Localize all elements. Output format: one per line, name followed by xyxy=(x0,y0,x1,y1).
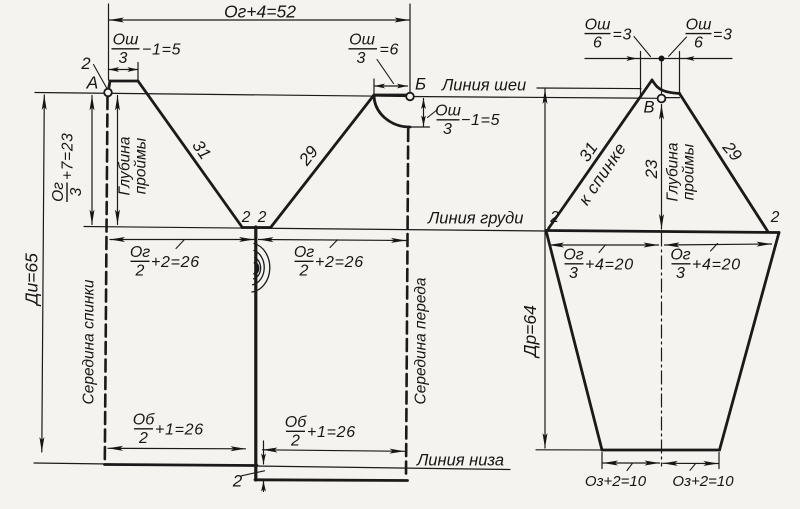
dim Ог/3+4 left xyxy=(549,244,659,246)
svg-text:Ог: Ог xyxy=(670,247,690,264)
label Ош/3-1=5 right xyxy=(435,103,500,139)
label Ош/6=3 left xyxy=(585,17,633,52)
svg-text:Глубина: Глубина xyxy=(665,142,682,201)
svg-text:Ог: Ог xyxy=(130,244,150,261)
tick x138 xyxy=(137,63,139,81)
svg-text:+7=23: +7=23 xyxy=(60,133,77,180)
dim 23 xyxy=(661,105,663,230)
sleeve center dash-dot xyxy=(661,233,663,466)
dim Ош/6 left arrow xyxy=(585,58,637,60)
chest vertex xyxy=(242,226,271,229)
svg-text:Глубина: Глубина xyxy=(117,136,134,195)
neck center dot xyxy=(659,56,665,62)
dim Ди=65 xyxy=(42,95,45,452)
svg-text:Ог+4=52: Ог+4=52 xyxy=(224,2,296,22)
svg-text:3: 3 xyxy=(68,187,85,196)
svg-text:+1=26: +1=26 xyxy=(155,422,204,439)
label 31 body xyxy=(188,137,214,163)
svg-text:+4=20: +4=20 xyxy=(692,257,741,274)
label Об/2+1=26 right xyxy=(285,414,356,450)
label Ог/2+2=26 left xyxy=(130,244,200,280)
top extension right xyxy=(409,4,411,92)
neck drop tick xyxy=(410,126,430,128)
sleeve hem xyxy=(602,449,720,452)
svg-text:Линия груди: Линия груди xyxy=(427,210,523,228)
leader Ог/2 left xyxy=(176,240,185,249)
leader Оз left xyxy=(627,463,633,470)
POINT CIRCLES xyxy=(104,89,665,103)
sleeve raglan right 29 xyxy=(680,94,768,232)
dim Об/2+1=26 left xyxy=(108,447,246,450)
center front dashed xyxy=(406,129,408,478)
label Середина переда xyxy=(413,277,430,404)
leader 2 at A xyxy=(94,65,108,90)
dim Ош/3-1=5 vertical xyxy=(423,99,425,127)
front hem xyxy=(255,478,408,482)
point B xyxy=(658,95,666,103)
svg-text:3: 3 xyxy=(357,50,366,67)
svg-text:+4=20: +4=20 xyxy=(585,257,634,274)
raglan 29 body xyxy=(271,95,374,227)
svg-text:3: 3 xyxy=(676,265,685,282)
front neck curve xyxy=(374,95,410,127)
label 23 xyxy=(642,159,661,179)
THIN CONSTRUCTION LINES xyxy=(34,4,720,470)
label Ог/3+4=20 right xyxy=(670,247,741,283)
leader Ог/3+4 left xyxy=(599,245,606,253)
svg-text:23: 23 xyxy=(642,159,661,179)
label Ог/3+4=20 left xyxy=(563,247,634,283)
svg-text:Ош: Ош xyxy=(585,17,611,34)
svg-text:Ош: Ош xyxy=(435,103,461,120)
oz tick left xyxy=(601,453,603,469)
sleeve right seam xyxy=(720,233,780,451)
dim Ог/3+4 right xyxy=(665,244,772,245)
oz tick right xyxy=(718,453,720,469)
svg-text:Ош: Ош xyxy=(349,32,375,49)
leader Ош/3=6 xyxy=(377,60,394,84)
svg-text:2: 2 xyxy=(135,263,145,280)
svg-text:Середина спинки: Середина спинки xyxy=(81,279,98,404)
tick x374 xyxy=(373,79,375,94)
dim Оз right xyxy=(663,462,719,464)
dim Ош/3=6 xyxy=(375,85,408,87)
svg-text:А: А xyxy=(86,73,99,93)
label Об/2+1=26 left xyxy=(133,412,204,448)
svg-text:6: 6 xyxy=(694,35,703,52)
svg-text:Об: Об xyxy=(285,414,307,431)
leader Оз right xyxy=(690,464,696,471)
dim Ог/2+2=26 right xyxy=(259,240,407,241)
raglan 31 body xyxy=(138,81,242,227)
top extension left xyxy=(108,4,110,80)
svg-text:2: 2 xyxy=(549,209,559,226)
leader Ош/3-1 right xyxy=(428,110,438,118)
dim step 2 upper xyxy=(263,441,265,464)
svg-text:проймы: проймы xyxy=(681,143,698,200)
svg-text:3: 3 xyxy=(119,50,128,67)
label 29 body xyxy=(295,142,323,170)
svg-text:Ош: Ош xyxy=(686,17,712,34)
label Ош/3-1=5 top left xyxy=(112,32,182,68)
bottom line xyxy=(34,463,510,470)
leader Ог/3+4 right xyxy=(711,244,718,252)
svg-text:31: 31 xyxy=(575,139,601,165)
dim Об/2+1=26 right xyxy=(263,450,405,452)
svg-text:Ог: Ог xyxy=(50,182,67,202)
svg-text:2: 2 xyxy=(299,263,309,280)
label Глубина проймы sleeve xyxy=(665,142,698,201)
upper neck line at sleeve xyxy=(537,87,641,90)
svg-text:2: 2 xyxy=(138,430,148,447)
dim Ош/6 middle xyxy=(637,58,684,60)
THICK PATTERN OUTLINE: SLEEVE xyxy=(546,80,779,450)
back hem xyxy=(105,465,258,466)
sleeve left seam xyxy=(546,231,602,451)
svg-text:−1=5: −1=5 xyxy=(461,112,500,129)
leader Ог/2 right xyxy=(330,240,338,248)
svg-text:3: 3 xyxy=(569,265,578,282)
dim step 2 lower xyxy=(263,481,265,492)
dim Оз left xyxy=(603,462,660,464)
label Ош/3=6 xyxy=(349,32,400,68)
svg-text:2: 2 xyxy=(257,209,267,226)
svg-text:+1=26: +1=26 xyxy=(307,424,356,441)
dim Ог/3+7=23 xyxy=(91,96,93,225)
leader 2 step xyxy=(242,471,265,476)
label Ди=65 xyxy=(22,253,42,307)
svg-text:2: 2 xyxy=(80,55,90,73)
sleeve center solid top xyxy=(661,62,663,95)
svg-text:Об: Об xyxy=(133,412,155,429)
label Ог/3+7=23 xyxy=(50,133,85,202)
svg-text:+2=26: +2=26 xyxy=(315,254,364,271)
sleeve ext right xyxy=(679,52,681,94)
side seam xyxy=(254,227,257,480)
dim Др=64 xyxy=(544,89,546,448)
svg-text:Линия низа: Линия низа xyxy=(416,452,504,470)
THICK PATTERN OUTLINE: BODY xyxy=(105,81,411,481)
leader Ош/6 left xyxy=(634,37,651,57)
label к спинке xyxy=(575,139,630,208)
sleeve ext left xyxy=(640,52,642,98)
LEADER LINES xyxy=(94,37,718,476)
label Середина спинки xyxy=(81,279,98,404)
dim Ош/6 right arrow xyxy=(684,58,732,60)
svg-text:Ди=65: Ди=65 xyxy=(22,253,42,307)
svg-text:Б: Б xyxy=(415,75,426,94)
chest line xyxy=(84,227,546,232)
label Ог/2+2=26 right xyxy=(294,244,364,280)
sleeve chest line xyxy=(546,231,779,233)
center back dashed xyxy=(105,97,108,463)
line from Б to B xyxy=(410,97,658,99)
label Глубина проймы body xyxy=(117,136,150,195)
point Б xyxy=(406,93,414,101)
sleeve top curve xyxy=(652,80,680,94)
label Ош/6=3 right xyxy=(686,17,733,52)
sleeve raglan left 31 xyxy=(549,80,653,229)
svg-text:2: 2 xyxy=(232,472,243,491)
svg-text:Оз+2=10: Оз+2=10 xyxy=(672,473,734,490)
svg-text:=3: =3 xyxy=(713,26,733,43)
svg-text:Оз+2=10: Оз+2=10 xyxy=(585,473,647,490)
svg-text:Ог: Ог xyxy=(563,247,583,264)
svg-text:2: 2 xyxy=(290,433,300,450)
label 31 sleeve xyxy=(575,139,601,165)
back shoulder xyxy=(110,80,138,83)
dim Ог+4=52 xyxy=(109,19,410,21)
svg-text:6: 6 xyxy=(593,35,602,52)
svg-text:В: В xyxy=(643,99,654,117)
svg-text:Др=64: Др=64 xyxy=(520,305,540,359)
neck line xyxy=(35,93,410,97)
dim глубина проймы body xyxy=(117,96,119,225)
svg-text:Середина переда: Середина переда xyxy=(413,277,430,404)
sleeve bottom line xyxy=(536,449,720,452)
svg-text:проймы: проймы xyxy=(133,137,150,194)
label 29 sleeve xyxy=(718,137,746,165)
svg-text:=3: =3 xyxy=(613,26,633,43)
leader Ош/6 right xyxy=(669,37,687,56)
dim Ог/2+2=26 left xyxy=(110,239,254,241)
back neck rise xyxy=(108,81,110,93)
fold arcs at chest vertex xyxy=(252,244,270,293)
front shoulder xyxy=(374,94,409,97)
stub right of B xyxy=(666,97,680,99)
svg-text:Ош: Ош xyxy=(113,32,139,49)
label Др=64 xyxy=(520,305,540,359)
svg-text:+2=26: +2=26 xyxy=(151,254,200,271)
dim Ош/3-1=5 left xyxy=(109,69,139,71)
svg-text:Линия шеи: Линия шеи xyxy=(441,77,526,95)
svg-text:2: 2 xyxy=(241,209,251,226)
svg-text:3: 3 xyxy=(443,121,452,138)
svg-text:2: 2 xyxy=(770,209,780,226)
svg-text:=6: =6 xyxy=(380,42,400,59)
svg-text:−1=5: −1=5 xyxy=(142,42,181,59)
svg-text:Ог: Ог xyxy=(294,244,314,261)
point A xyxy=(104,89,112,97)
